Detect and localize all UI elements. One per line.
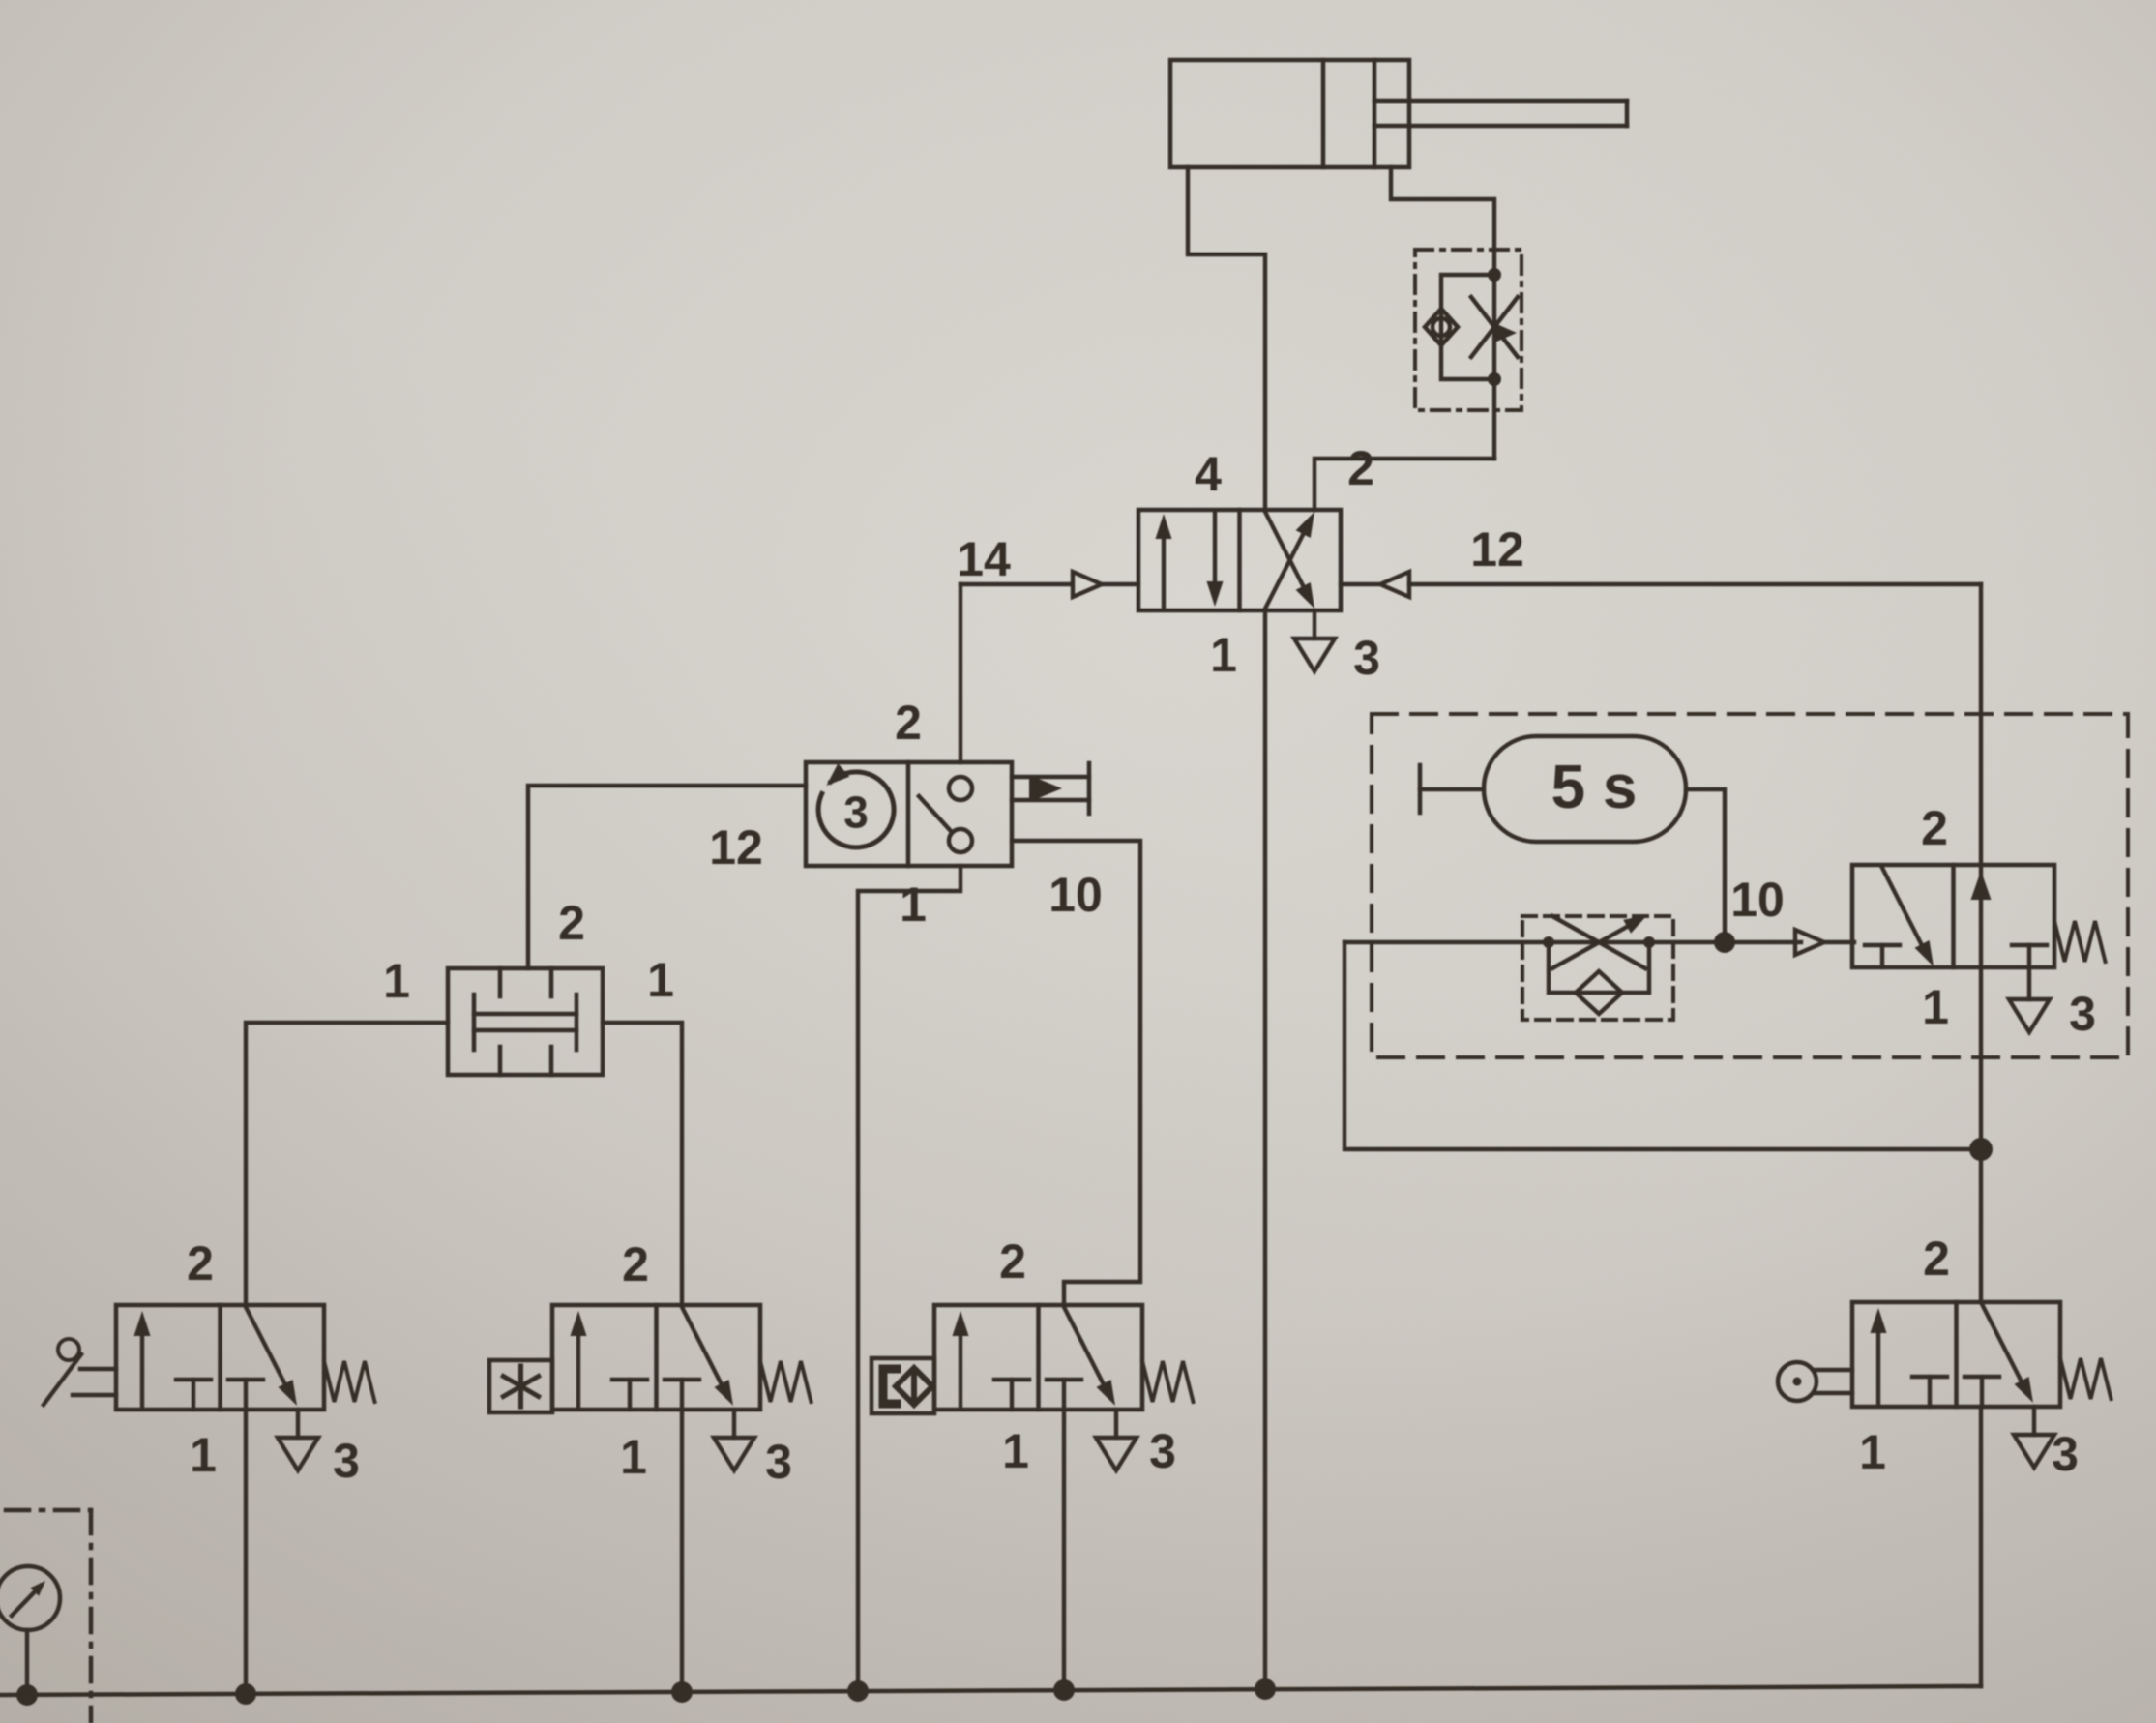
svg-text:3: 3	[765, 1435, 792, 1489]
svg-text:12: 12	[1470, 522, 1524, 577]
svg-text:3: 3	[2052, 1427, 2079, 1481]
svg-text:2: 2	[622, 1237, 649, 1292]
svg-text:3: 3	[1353, 631, 1380, 685]
svg-text:1: 1	[190, 1428, 217, 1482]
svg-text:5 s: 5 s	[1551, 752, 1638, 821]
svg-text:1: 1	[1002, 1424, 1029, 1478]
svg-text:3: 3	[1149, 1424, 1176, 1478]
svg-text:4: 4	[1195, 447, 1222, 501]
svg-text:14: 14	[957, 532, 1011, 586]
svg-text:1: 1	[383, 954, 410, 1008]
svg-text:10: 10	[1730, 873, 1785, 927]
svg-text:3: 3	[2069, 987, 2096, 1041]
svg-text:2: 2	[999, 1234, 1026, 1289]
svg-text:1: 1	[1859, 1425, 1886, 1479]
svg-text:3: 3	[333, 1434, 360, 1488]
svg-text:1: 1	[647, 953, 674, 1007]
svg-text:12: 12	[709, 820, 763, 875]
svg-text:2: 2	[1921, 801, 1948, 855]
svg-text:2: 2	[187, 1236, 214, 1291]
svg-text:1: 1	[900, 877, 927, 932]
svg-text:1: 1	[620, 1430, 647, 1484]
svg-text:2: 2	[895, 696, 922, 750]
svg-text:2: 2	[1347, 441, 1374, 495]
svg-text:2: 2	[558, 896, 585, 950]
svg-text:10: 10	[1048, 868, 1103, 922]
svg-text:1: 1	[1922, 980, 1949, 1034]
svg-text:2: 2	[1923, 1232, 1950, 1286]
svg-text:1: 1	[1210, 628, 1237, 682]
svg-text:3: 3	[843, 787, 869, 838]
